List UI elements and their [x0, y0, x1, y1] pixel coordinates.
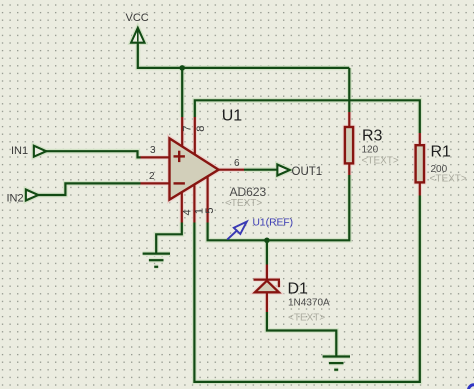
- svg-text:R3: R3: [362, 128, 383, 145]
- svg-text:D1: D1: [288, 281, 309, 298]
- svg-text:AD623: AD623: [230, 185, 267, 199]
- svg-text:<TEXT>: <TEXT>: [225, 198, 262, 209]
- svg-text:5: 5: [204, 208, 216, 214]
- svg-text:R1: R1: [431, 144, 452, 161]
- svg-text:4: 4: [182, 209, 194, 215]
- svg-text:U1(REF): U1(REF): [253, 218, 294, 229]
- svg-text:1N4370A: 1N4370A: [288, 298, 330, 309]
- svg-text:<TEXT>: <TEXT>: [362, 156, 399, 167]
- svg-text:IN2: IN2: [7, 193, 24, 205]
- svg-text:U1: U1: [222, 107, 243, 124]
- svg-text:VCC: VCC: [126, 12, 149, 24]
- svg-text:6: 6: [234, 158, 240, 169]
- svg-text:OUT1: OUT1: [292, 166, 323, 178]
- svg-text:120: 120: [362, 145, 379, 156]
- svg-text:<TEXT>: <TEXT>: [288, 313, 325, 324]
- svg-text:2: 2: [149, 171, 155, 182]
- svg-text:IN1: IN1: [11, 145, 28, 157]
- svg-text:3: 3: [150, 145, 156, 156]
- svg-text:<TEXT>: <TEXT>: [430, 174, 467, 185]
- svg-text:8: 8: [195, 126, 207, 132]
- svg-text:7: 7: [181, 126, 193, 132]
